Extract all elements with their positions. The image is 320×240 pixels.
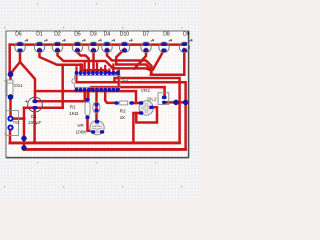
wire D4 to IC pad (107, 49, 152, 75)
wire D9 down (183, 49, 186, 75)
diode D8 (159, 32, 172, 53)
diode D4 (102, 32, 115, 53)
wire C1 bottom vertical to A rail (33, 109, 36, 143)
capacitor C2 body (93, 102, 100, 113)
wire IC bottom pad stubs (77, 89, 93, 100)
wire D6 branch to C1 top (20, 62, 35, 102)
wire S2 horizontal from D9 (151, 74, 184, 77)
diode D1 (34, 32, 47, 53)
IC top pad row (75, 71, 120, 75)
board (6, 31, 189, 158)
D11 body (7, 80, 13, 96)
wire C2 to VR1 top (95, 105, 98, 122)
wire C1 bottom horizontal (24, 107, 63, 110)
svg-text:D6: D6 (15, 32, 22, 38)
svg-text:+: + (25, 99, 28, 105)
wire D6 branch horizontal continuing to R2 junction (35, 91, 136, 103)
svg-text:1KΩ: 1KΩ (69, 111, 79, 116)
diode D7 (141, 32, 154, 53)
wire B rail (24, 148, 186, 151)
wire SIL2 bottom to vias (165, 101, 186, 104)
wire S3 to right vertical and A rail (115, 78, 180, 143)
wire D11 bottom to T02 (9, 96, 12, 119)
wire R2 feed from IC (105, 89, 116, 103)
wire via to D11 (9, 74, 12, 80)
svg-text:D7: D7 (143, 32, 150, 38)
wire D1 line with steps (40, 49, 119, 73)
wire D3 to IC pad (92, 49, 95, 72)
resistor R2 body (114, 101, 133, 105)
resistor R1 body (85, 98, 90, 119)
via BL 1 (22, 136, 27, 141)
via R 2 (183, 100, 188, 105)
wire D6 bottom branch to via (11, 50, 20, 74)
wire R2 right pad to VR2 (132, 102, 142, 105)
svg-text:SIL2: SIL2 (147, 96, 157, 101)
svg-text:D11: D11 (14, 83, 23, 89)
wire S5 to SIL2 top (91, 87, 165, 95)
wire D2 line (58, 49, 114, 68)
diode D3 (88, 32, 101, 53)
wire D5 to IC pad (78, 49, 89, 72)
diode D9 (179, 32, 192, 53)
svg-text:100K: 100K (76, 130, 88, 135)
capacitor C1 (25, 97, 43, 112)
svg-text:VR2: VR2 (141, 88, 151, 93)
IC IC1 body (72, 76, 120, 88)
wire branch down to C1 bottom (61, 65, 64, 108)
wire R1 top feed (87, 91, 90, 100)
wire left rail down to via (8, 45, 11, 74)
svg-text:100µF: 100µF (28, 120, 42, 125)
wire VR2 BL pad left and down to A (133, 113, 141, 143)
svg-text:D2: D2 (54, 32, 61, 38)
T02 pad 1 (7, 116, 13, 122)
wire C2 stub from IC (95, 89, 98, 105)
svg-text:VR: VR (77, 123, 84, 128)
wire C1 top to IC (35, 90, 85, 102)
svg-text:1K: 1K (120, 115, 127, 120)
wire R1 bottom to VR1 BL (88, 117, 92, 130)
wire T02 top pad right (12, 117, 24, 120)
T02 pad 2 (7, 125, 13, 131)
wire via chain vertical (23, 119, 26, 149)
svg-text:C1: C1 (31, 114, 37, 119)
wire D10 to IC pad (116, 49, 150, 69)
diode D6 (15, 32, 28, 53)
wire IC top pad stubs (77, 61, 114, 72)
via R 1 (174, 100, 179, 105)
wire D8 diagonal (153, 50, 164, 69)
wire IC right vertical (118, 71, 121, 91)
wire C1 bottom left corner (23, 108, 26, 119)
svg-text:R1: R1 (70, 105, 76, 110)
wire S4 through IC to right vertical and B rail (77, 82, 186, 149)
wire top rail (10, 43, 185, 46)
diode D2 (52, 32, 65, 53)
wire A rail (10, 141, 180, 144)
connector SIL2 body (158, 93, 169, 105)
svg-text:D8: D8 (163, 32, 170, 38)
via left (8, 72, 13, 77)
svg-text:T02: T02 (13, 120, 21, 125)
svg-text:R2: R2 (120, 109, 126, 114)
trimmer VR1 (90, 120, 104, 135)
svg-text:D1: D1 (36, 32, 43, 38)
svg-text:D3: D3 (90, 32, 97, 38)
trimmer VR2 (139, 101, 154, 115)
via D11 bottom (8, 94, 13, 99)
wire VR2 loop (136, 107, 157, 122)
svg-text:D4: D4 (104, 32, 111, 38)
svg-text:D9: D9 (183, 32, 190, 38)
via BL 2 (22, 146, 27, 151)
wire bus line over IC (113, 68, 151, 74)
IC bottom pad row (75, 88, 120, 92)
wire IC pin1 stub to interior line (75, 74, 77, 82)
T02 connector body (6, 111, 19, 136)
svg-text:D10: D10 (120, 32, 129, 38)
svg-text:IC1: IC1 (122, 77, 129, 82)
wire A rail left up to T02 (9, 129, 12, 143)
wire D7 diagonal (135, 49, 147, 69)
diode D10 (119, 32, 132, 53)
diode D5 (72, 32, 85, 53)
svg-text:D5: D5 (74, 32, 81, 38)
